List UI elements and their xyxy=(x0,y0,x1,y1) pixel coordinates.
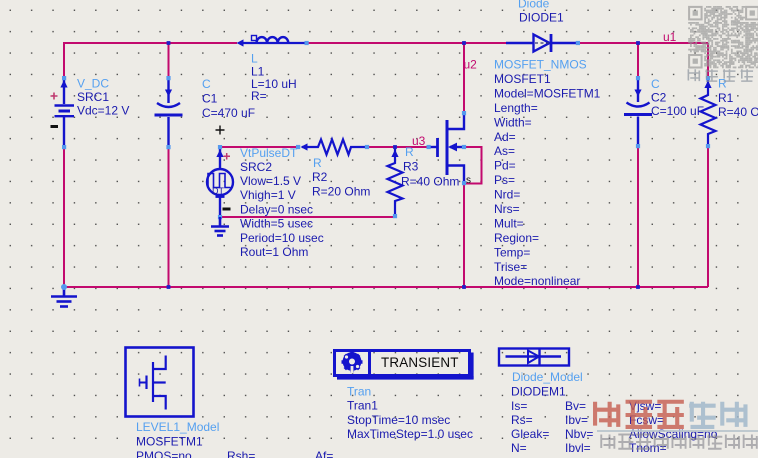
svg-text:C1: C1 xyxy=(202,92,218,106)
svg-text:DT: DT xyxy=(212,186,224,196)
svg-text:LEVEL1_Model: LEVEL1_Model xyxy=(136,420,219,434)
SRC2 pin squares xyxy=(218,145,222,149)
wire R1 branch upper xyxy=(707,43,709,78)
capacitor C2 xyxy=(624,78,652,146)
wire C2 branch upper xyxy=(637,43,639,78)
MOSFET bulk arrow xyxy=(448,143,457,152)
svg-text:MOSFET_NMOS: MOSFET_NMOS xyxy=(494,58,587,72)
svg-text:Ps=: Ps= xyxy=(494,173,515,187)
L1 right pin square xyxy=(305,41,309,45)
wire MOSFET source to bottom rail xyxy=(463,183,465,287)
svg-text:DIODE1: DIODE1 xyxy=(519,11,564,25)
resistor R3 (vertical) xyxy=(388,147,403,216)
svg-text:L: L xyxy=(251,52,258,66)
MOSFET pin squares xyxy=(427,145,431,149)
svg-text:PMOS=no: PMOS=no xyxy=(136,449,192,458)
SRC2 magenta plus sign xyxy=(224,153,231,160)
ground bottom-left xyxy=(51,287,77,307)
svg-text:u2: u2 xyxy=(464,58,478,72)
svg-text:Vlow=1.5 V: Vlow=1.5 V xyxy=(240,174,301,188)
svg-text:Rout=1 Ohm: Rout=1 Ohm xyxy=(240,245,308,259)
transient gear icon xyxy=(342,352,363,374)
svg-text:Temp=: Temp= xyxy=(494,245,530,259)
svg-text:Af=: Af= xyxy=(315,449,333,458)
svg-text:R3: R3 xyxy=(403,160,419,174)
svg-text:Mult=: Mult= xyxy=(494,216,524,230)
svg-text:Ibvl=: Ibvl= xyxy=(565,441,591,455)
transient controller box xyxy=(335,351,474,380)
MOSFET U3 (MOSFET1 switch) xyxy=(428,113,464,183)
wire C1 branch upper xyxy=(168,43,170,78)
svg-text:R=40 Ohm: R=40 Ohm xyxy=(401,175,459,189)
svg-text:R: R xyxy=(718,77,727,91)
svg-text:SRC2: SRC2 xyxy=(240,160,272,174)
svg-text:VtPulseDT: VtPulseDT xyxy=(240,146,298,160)
wire R2 to MOSFET gate xyxy=(367,146,428,148)
svg-text:Model=MOSFETM1: Model=MOSFETM1 xyxy=(494,86,601,100)
svg-text:Rsh=: Rsh= xyxy=(227,449,255,458)
svg-text:DIODEM1: DIODEM1 xyxy=(511,385,566,399)
wire SRC2 to R2 (gate drive) xyxy=(220,146,298,148)
svg-text:R2: R2 xyxy=(312,170,328,184)
Diode model box xyxy=(499,349,569,366)
svg-text:MOSFET1: MOSFET1 xyxy=(494,72,551,86)
wire C2 branch lower xyxy=(637,146,639,287)
svg-text:R=40 Ohm: R=40 Ohm xyxy=(718,105,758,119)
svg-text:C: C xyxy=(202,77,211,91)
wire MOSFET bulk-source loop xyxy=(463,147,482,184)
junction node u2 top xyxy=(462,41,466,45)
svg-text:Ad=: Ad= xyxy=(494,130,516,144)
svg-text:Is=: Is= xyxy=(511,399,527,413)
svg-text:Tran: Tran xyxy=(347,385,371,399)
svg-text:Tran1: Tran1 xyxy=(347,399,378,413)
L1 pin1 hollow square xyxy=(252,36,257,41)
svg-text:V_DC: V_DC xyxy=(77,77,109,91)
svg-text:MaxTimeStep=1.0 usec: MaxTimeStep=1.0 usec xyxy=(347,427,473,441)
svg-text:R=20 Ohm: R=20 Ohm xyxy=(312,185,370,199)
WeChat contact watermark text xyxy=(688,69,701,81)
svg-text:u1: u1 xyxy=(663,30,677,44)
svg-text:MOSFETM1: MOSFETM1 xyxy=(136,435,203,449)
junction dot bottom-left xyxy=(61,284,67,290)
wire top rail right segment (diode to R1 corner) xyxy=(578,42,708,44)
svg-text:Vhigh=1 V: Vhigh=1 V xyxy=(240,188,296,202)
voltage source SRC1 (V_DC battery) xyxy=(55,78,75,147)
svg-text:Ibv=: Ibv= xyxy=(565,413,588,427)
svg-text:C=470 uF: C=470 uF xyxy=(202,106,255,120)
svg-text:StopTime=10 msec: StopTime=10 msec xyxy=(347,413,450,427)
junction node source bottom xyxy=(462,285,466,289)
wire left vertical lower (SRC1 to bottom rail) xyxy=(63,147,65,287)
svg-text:Vdc=12 V: Vdc=12 V xyxy=(77,104,129,118)
svg-text:R: R xyxy=(313,156,322,170)
svg-text:Width=: Width= xyxy=(494,115,532,129)
junction node R3 top xyxy=(393,145,397,149)
svg-text:Gleak=: Gleak= xyxy=(511,427,549,441)
svg-text:C=100 uF: C=100 uF xyxy=(651,104,704,118)
svg-text:s: s xyxy=(466,175,471,186)
svg-text:Pd=: Pd= xyxy=(494,159,516,173)
QR code watermark xyxy=(688,6,758,68)
wire left vertical upper (rail to SRC1) xyxy=(63,42,65,78)
wire SRC2 bottom to R3 bottom xyxy=(220,216,395,218)
svg-text:Delay=0 nsec: Delay=0 nsec xyxy=(240,203,313,217)
svg-text:Nrd=: Nrd= xyxy=(494,188,520,202)
junction node C1 bottom xyxy=(167,285,171,289)
capacitor C1 xyxy=(155,78,183,147)
svg-text:N=: N= xyxy=(511,441,527,455)
junction node C2 bottom xyxy=(636,285,640,289)
wire bottom rail xyxy=(64,286,708,288)
svg-text:SRC1: SRC1 xyxy=(77,90,109,104)
svg-text:As=: As= xyxy=(494,144,515,158)
C1 pin squares xyxy=(166,76,170,80)
svg-text:TRANSIENT: TRANSIENT xyxy=(381,355,459,370)
ground below SRC2 xyxy=(211,217,229,236)
svg-text:C2: C2 xyxy=(651,91,667,105)
MOSFET LEVEL1 model box xyxy=(126,348,194,417)
svg-text:Bv=: Bv= xyxy=(565,399,586,413)
L1 left pin arrow xyxy=(237,39,244,46)
svg-text:Mode=nonlinear: Mode=nonlinear xyxy=(494,274,580,288)
wire C1 branch lower xyxy=(168,147,170,287)
SRC2 minus sign xyxy=(223,208,231,211)
svg-text:Nbv=: Nbv= xyxy=(565,427,593,441)
inductor L1 xyxy=(240,37,306,43)
SRC2 black plus sign xyxy=(216,126,225,135)
wire top rail left segment xyxy=(64,42,237,44)
svg-text:Diode: Diode xyxy=(518,0,550,11)
wire node u2 drain vertical xyxy=(463,43,465,113)
svg-text:u3: u3 xyxy=(412,134,426,148)
wire top rail middle segment (inductor to diode) xyxy=(307,42,506,44)
pulse source SRC2 (VtPulseDT) xyxy=(207,147,233,217)
svg-text:R=: R= xyxy=(251,89,267,103)
SRC1 minus sign xyxy=(51,125,59,128)
svg-text:Width=5 usec: Width=5 usec xyxy=(240,217,313,231)
svg-text:Nrs=: Nrs= xyxy=(494,202,520,216)
resistor R1 (vertical, load) xyxy=(701,78,716,146)
svg-text:C: C xyxy=(651,77,660,91)
svg-text:Trise=: Trise= xyxy=(494,260,527,274)
junction node C2 top xyxy=(636,41,640,45)
resistor R2 (horizontal) xyxy=(302,140,367,155)
SRC1 plus sign xyxy=(51,93,58,100)
diode DIODE1 xyxy=(506,34,578,52)
svg-text:Length=: Length= xyxy=(494,101,538,115)
svg-text:Region=: Region= xyxy=(494,231,539,245)
svg-text:Diode_Model: Diode_Model xyxy=(512,370,583,384)
red training watermark xyxy=(594,402,621,427)
wire R1 branch lower xyxy=(707,146,709,287)
grey slogan watermark xyxy=(601,435,616,449)
junction node C1 top xyxy=(167,41,171,45)
svg-text:Rs=: Rs= xyxy=(511,413,533,427)
SRC1 pin squares xyxy=(62,76,66,80)
svg-text:R1: R1 xyxy=(718,91,734,105)
svg-text:Period=10 usec: Period=10 usec xyxy=(240,231,324,245)
